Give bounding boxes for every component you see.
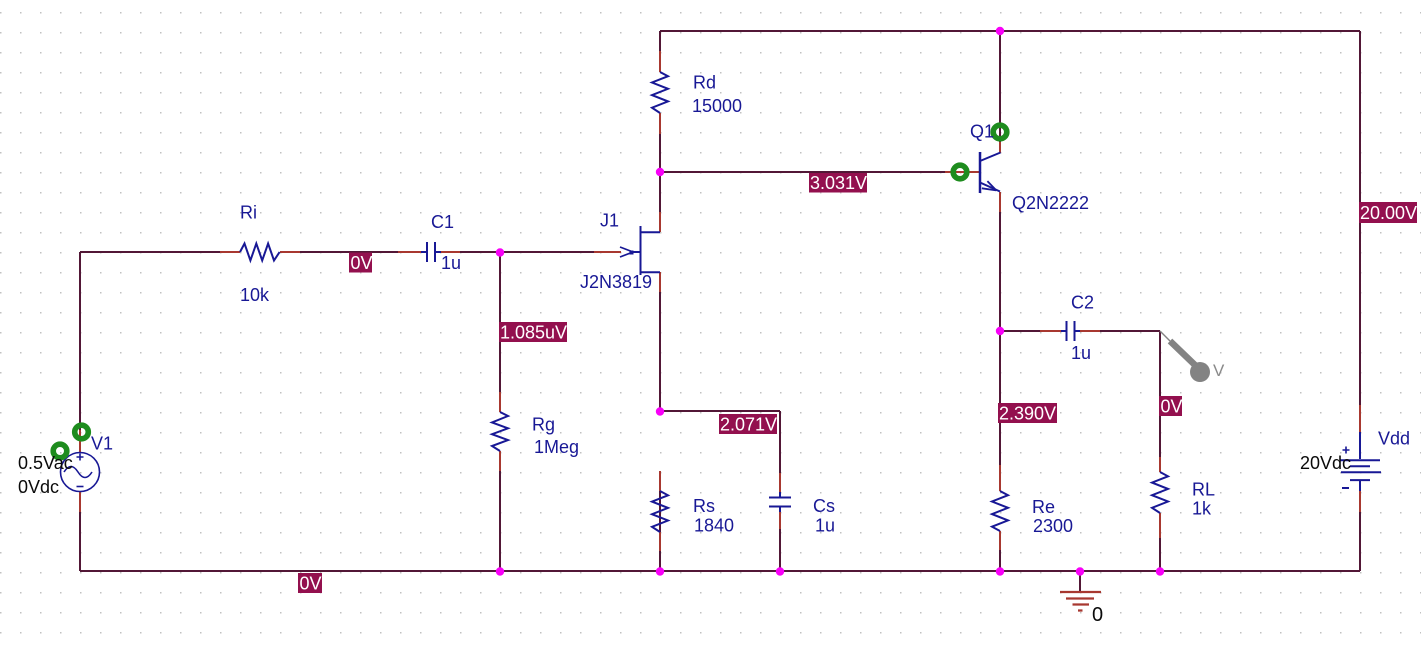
- svg-text:10k: 10k: [240, 285, 270, 305]
- wire: ground stub: [1079, 571, 1081, 592]
- viewpoint marker left of V1: [53, 444, 67, 458]
- svg-text:3.031V: 3.031V: [810, 173, 867, 193]
- junction bottom RL: [1156, 567, 1164, 575]
- svg-text:Vdd: Vdd: [1378, 429, 1410, 449]
- svg-text:Ri: Ri: [240, 203, 257, 223]
- wire: C2 to output corner: [1100, 330, 1160, 332]
- svg-text:2300: 2300: [1033, 516, 1073, 536]
- wire: top rail from Rd top to right rail: [660, 30, 1360, 32]
- capacitor C1 pins: [398, 251, 460, 253]
- jfet J1 body: [620, 226, 660, 275]
- svg-text:0V: 0V: [1161, 397, 1183, 417]
- source V1 pins: [79, 430, 81, 512]
- junction node C: [996, 327, 1004, 335]
- resistor Rg pins: [499, 392, 501, 471]
- viewpoint marker at V1 top: [75, 425, 89, 439]
- resistor Ri pins: [220, 251, 300, 253]
- svg-text:2.071V: 2.071V: [720, 415, 777, 435]
- svg-text:C2: C2: [1071, 293, 1094, 313]
- junction bottom ground: [1076, 567, 1084, 575]
- svg-text:Q1: Q1: [970, 122, 994, 142]
- bias label 0V after Ri: [349, 253, 373, 274]
- resistor Rs: [652, 491, 668, 532]
- svg-text:2.390V: 2.390V: [999, 404, 1056, 424]
- svg-text:Rd: Rd: [693, 73, 716, 93]
- wire: output corner down to RL: [1159, 331, 1161, 457]
- battery Vdd body: [1340, 432, 1381, 491]
- transistor Q1 emitter pin: [999, 192, 1001, 212]
- svg-text:J2N3819: J2N3819: [580, 272, 652, 292]
- wire: RL bottom to bottom rail: [1159, 538, 1161, 571]
- junction top rail collector: [996, 27, 1004, 35]
- resistor Rs pins: [659, 471, 661, 551]
- capacitor Cs: [769, 492, 791, 512]
- wire: Rd top to top rail: [659, 31, 661, 51]
- svg-text:0.5Vac: 0.5Vac: [18, 453, 73, 473]
- wire: Rs bottom to bottom rail: [659, 471, 661, 571]
- wire: Cs top corner down: [779, 411, 781, 473]
- svg-text:RL: RL: [1192, 480, 1215, 500]
- wire: Ri to C1: [300, 251, 398, 253]
- battery Vdd pins: [1359, 405, 1361, 512]
- svg-text:1.085uV: 1.085uV: [500, 323, 567, 343]
- wire: right rail below battery to bottom rail: [1359, 512, 1361, 571]
- ground 0 bars: [1060, 592, 1101, 611]
- jfet J1 gate pin: [594, 251, 621, 253]
- resistor Rd pins: [659, 51, 661, 134]
- svg-text:1840: 1840: [694, 516, 734, 536]
- battery Vdd plus mark: [1343, 447, 1350, 454]
- junction bottom Re: [996, 567, 1004, 575]
- transistor Q1 body: [980, 152, 1001, 193]
- svg-text:C1: C1: [431, 212, 454, 232]
- resistor Rd: [652, 72, 668, 113]
- svg-text:0Vdc: 0Vdc: [18, 477, 59, 497]
- svg-text:20.00V: 20.00V: [1360, 203, 1417, 223]
- svg-text:1u: 1u: [441, 253, 461, 273]
- junction node B: [656, 407, 664, 415]
- svg-text:Rs: Rs: [693, 496, 715, 516]
- wire: node C down to Re: [999, 331, 1001, 465]
- jfet J1 drain pin: [659, 212, 661, 232]
- svg-text:0: 0: [1092, 604, 1103, 626]
- junction drain node: [656, 168, 664, 176]
- wire: left rail from input corner down through V1: [79, 252, 81, 571]
- bias label 3.031V: [809, 173, 867, 193]
- wire: Q1 emitter down to node C: [999, 212, 1001, 331]
- wire: J1 source down to node B: [659, 292, 661, 411]
- capacitor C1: [421, 242, 441, 262]
- source V1 body: [61, 453, 100, 492]
- battery Vdd minus mark: [1342, 487, 1349, 489]
- wire: bottom rail: [80, 570, 1360, 572]
- junction bottom Cs: [776, 567, 784, 575]
- wire: Q1 collector up to top rail: [999, 31, 1001, 142]
- wire: Re bottom to bottom rail: [999, 550, 1001, 571]
- bias label 2.390V: [998, 403, 1057, 424]
- bias label 2.071V: [719, 414, 777, 435]
- svg-text:20Vdc: 20Vdc: [1300, 453, 1351, 473]
- svg-text:1u: 1u: [1071, 343, 1091, 363]
- viewpoint marker at Q1 collector: [993, 125, 1007, 139]
- jfet J1 source pin: [659, 272, 661, 292]
- svg-text:0V: 0V: [351, 253, 373, 273]
- probe marker V: [1160, 331, 1225, 382]
- svg-text:0V: 0V: [300, 574, 322, 594]
- wire: node A down to Rg: [499, 252, 501, 392]
- transistor Q1 collector pin: [999, 142, 1001, 153]
- svg-text:1k: 1k: [1192, 499, 1212, 519]
- svg-text:V1: V1: [91, 434, 113, 454]
- wire: C1 to node A and on to J1 gate: [460, 251, 594, 253]
- wire: Cs bottom to bottom rail: [779, 529, 781, 571]
- svg-text:V: V: [1213, 361, 1225, 380]
- wire: Rg bottom to bottom rail: [499, 471, 501, 571]
- resistor Re: [992, 491, 1008, 531]
- junction node A: [496, 248, 504, 256]
- bias label 1.085uV: [499, 322, 567, 343]
- resistor RL pins: [1159, 457, 1161, 538]
- bias label 0V at RL: [1159, 396, 1183, 417]
- capacitor Cs pins: [779, 473, 781, 529]
- svg-text:Rg: Rg: [532, 415, 555, 435]
- capacitor C2 pins: [1040, 330, 1100, 332]
- svg-text:Re: Re: [1032, 497, 1055, 517]
- wire: Rd bottom to drain node: [659, 134, 661, 212]
- resistor Re pins: [999, 465, 1001, 550]
- junction bottom Rs: [656, 567, 664, 575]
- svg-text:15000: 15000: [692, 96, 742, 116]
- junction bottom Rg: [496, 567, 504, 575]
- resistor Rg: [492, 412, 508, 451]
- svg-text:1u: 1u: [815, 516, 835, 536]
- svg-text:J1: J1: [600, 211, 619, 231]
- svg-text:Cs: Cs: [813, 496, 835, 516]
- capacitor C2: [1061, 321, 1080, 341]
- transistor Q1 base pin: [945, 171, 979, 173]
- bias label 20.00V: [1359, 202, 1417, 223]
- resistor RL: [1152, 472, 1168, 513]
- resistor Ri: [240, 244, 280, 261]
- wire: drain node to Q1 base: [660, 171, 945, 173]
- wire: node C to C2: [1000, 330, 1040, 332]
- wire: node B to Cs branch: [660, 410, 780, 412]
- wire: right rail down to battery Vdd: [1359, 31, 1361, 405]
- svg-text:Q2N2222: Q2N2222: [1012, 193, 1089, 213]
- svg-text:1Meg: 1Meg: [534, 437, 579, 457]
- wire: input horizontal from left rail to Ri: [80, 251, 220, 253]
- viewpoint marker at Q1 base: [953, 165, 967, 179]
- bias label 0V bottom rail: [298, 573, 322, 594]
